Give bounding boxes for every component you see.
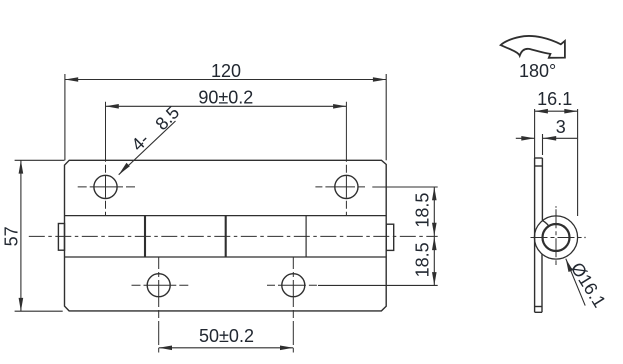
hinge leaf outline (front view, chamfered plate) xyxy=(65,160,387,311)
knuckle division line 3 xyxy=(305,216,307,257)
pin end right xyxy=(386,224,394,250)
hole bottom-left center lines xyxy=(132,257,189,353)
dimension 50±0.2 xyxy=(159,347,294,349)
side view leaf (upper) xyxy=(535,158,543,312)
curl end face xyxy=(542,221,549,227)
side view leaf (lower) xyxy=(535,254,542,312)
hole top-left center lines xyxy=(78,102,135,216)
knuckle center cross (side view) xyxy=(531,206,586,265)
svg-text:4-: 4- xyxy=(127,129,152,154)
hole bottom-left xyxy=(147,274,170,297)
dimension 57 xyxy=(15,160,65,311)
pin center line (horizontal dash-dot axis) xyxy=(29,235,438,237)
knuckle division line 1 xyxy=(144,216,146,257)
svg-text:90±0.2: 90±0.2 xyxy=(198,87,253,107)
leader Ø16.1 xyxy=(566,259,585,306)
svg-text:120: 120 xyxy=(211,61,241,81)
svg-text:18.5: 18.5 xyxy=(412,242,432,277)
svg-text:3: 3 xyxy=(556,117,566,137)
dimension 18.5 pair (right side) xyxy=(318,187,438,285)
leader 4-8.5 xyxy=(119,121,176,175)
180° swing arrow xyxy=(501,36,565,58)
svg-text:180°: 180° xyxy=(519,61,556,81)
knuckle bottom edge xyxy=(65,256,387,258)
hole top-left xyxy=(94,175,117,198)
dimension 120 xyxy=(65,74,386,160)
dimension 3 (side, thickness) xyxy=(516,134,577,155)
svg-text:16.1: 16.1 xyxy=(537,89,572,109)
pin end left xyxy=(58,224,64,251)
knuckle outer circle (side view) xyxy=(534,216,577,259)
svg-text:50±0.2: 50±0.2 xyxy=(199,326,254,346)
hole bottom-right xyxy=(282,274,305,297)
hole top-right xyxy=(335,175,358,198)
hole bottom-right center lines xyxy=(267,257,317,353)
svg-text:57: 57 xyxy=(1,226,21,246)
hole top-right center lines xyxy=(315,102,365,216)
dimension 16.1 (side) xyxy=(535,109,578,216)
dimension 90±0.2 xyxy=(106,105,347,107)
knuckle division line 2 (center) xyxy=(225,216,227,257)
svg-text:Ø16.1: Ø16.1 xyxy=(567,259,610,311)
knuckle top edge xyxy=(65,215,387,217)
pin hole inner circle (side view) xyxy=(543,224,570,251)
svg-text:18.5: 18.5 xyxy=(412,193,432,228)
svg-text:8.5: 8.5 xyxy=(151,102,183,134)
